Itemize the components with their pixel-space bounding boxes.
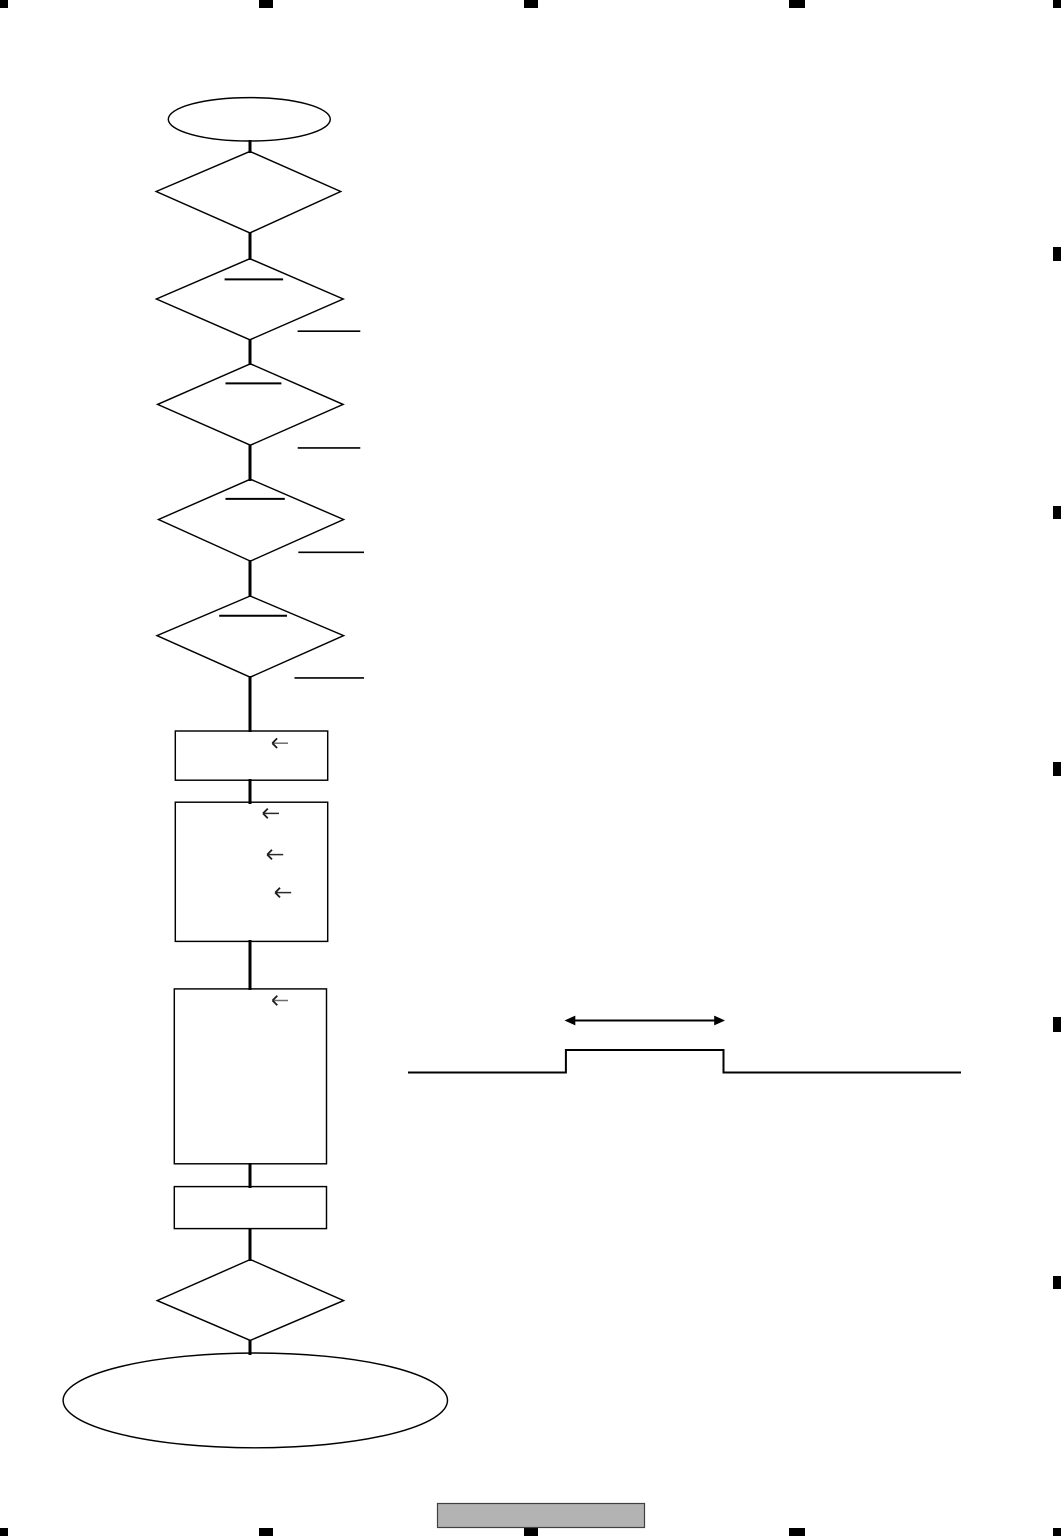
- registration mark top-3: [524, 0, 538, 8]
- decision diamond D4: [159, 479, 344, 561]
- branch label line right of D4: [298, 551, 364, 553]
- underline inside D5: [219, 615, 287, 617]
- registration mark right-5: [1053, 1276, 1061, 1289]
- registration mark right-2: [1053, 506, 1061, 519]
- decision diamond D3: [158, 364, 344, 445]
- start ellipse: [168, 98, 330, 141]
- left arrow in P3: [274, 1000, 288, 1002]
- registration mark bottom-3: [524, 1528, 538, 1536]
- branch label line right of D2: [298, 330, 361, 332]
- process box P3: [174, 989, 326, 1164]
- wire P2 to P3: [249, 940, 252, 990]
- wire P4 to decision D6: [249, 1228, 252, 1261]
- waveform pulse trace: [408, 1050, 961, 1073]
- decision diamond D1: [156, 151, 341, 233]
- registration mark right-1: [1053, 247, 1061, 261]
- grey label box at page bottom: [438, 1504, 645, 1528]
- branch label line right of D5: [295, 677, 365, 679]
- wire P3 to P4: [249, 1163, 252, 1188]
- branch label line right of D3: [298, 447, 361, 449]
- left arrow in P1: [274, 742, 289, 744]
- registration mark bottom-left: [0, 1528, 8, 1536]
- registration mark right-3: [1053, 762, 1061, 776]
- decision diamond D2: [156, 259, 343, 340]
- underline inside D4: [226, 498, 285, 500]
- registration mark bottom-4: [789, 1528, 805, 1536]
- registration mark top-2: [259, 0, 273, 8]
- underline inside D2: [225, 278, 284, 280]
- registration mark top-4: [789, 0, 805, 8]
- registration mark right-4: [1053, 1017, 1061, 1032]
- registration mark top-left: [0, 0, 8, 8]
- process box P4: [174, 1187, 326, 1229]
- wire ellipse to decision D1: [249, 140, 252, 153]
- wire D3 to D4: [249, 445, 252, 482]
- registration mark top-right: [1053, 0, 1061, 8]
- process box P2: [175, 802, 327, 941]
- waveform span arrow (double headed): [565, 1016, 726, 1026]
- wire D4 to D5: [249, 560, 252, 597]
- wire D1 to D2: [249, 232, 252, 260]
- process box P1: [175, 731, 327, 780]
- registration mark bottom-right: [1053, 1528, 1061, 1536]
- wire D5 to process P1: [249, 676, 252, 732]
- left arrow 3 in P2: [276, 892, 291, 894]
- wire D2 to D3: [249, 339, 252, 365]
- wire D6 to end ellipse: [249, 1340, 252, 1356]
- left arrow 2 in P2: [268, 854, 283, 856]
- left arrow 1 in P2: [264, 812, 279, 814]
- decision diamond D6: [157, 1260, 343, 1341]
- end ellipse: [63, 1353, 447, 1448]
- underline inside D3: [226, 382, 282, 384]
- registration mark bottom-2: [259, 1528, 273, 1536]
- decision diamond D5: [157, 596, 344, 677]
- wire P1 to P2: [249, 779, 252, 804]
